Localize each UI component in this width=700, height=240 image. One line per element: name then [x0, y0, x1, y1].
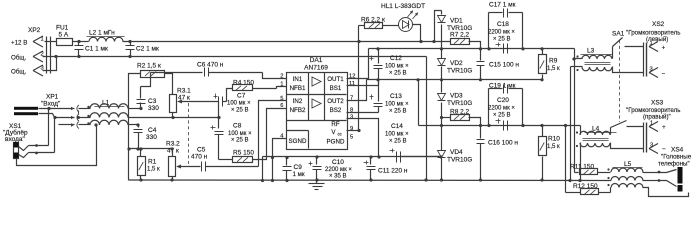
diode VD2 [441, 49, 443, 59]
IC amp triangle 2 [312, 99, 321, 108]
wire XS1 ring riser [54, 118, 56, 153]
svg-text:VD4: VD4 [450, 149, 463, 156]
resistor R10 [542, 126, 544, 137]
svg-text:R11 150: R11 150 [570, 164, 594, 171]
svg-text:C17 1 мк: C17 1 мк [489, 2, 516, 9]
svg-text:+: + [662, 124, 666, 131]
wire line2 left [39, 114, 55, 118]
svg-text:1: 1 [41, 37, 44, 43]
svg-text:TVR10G: TVR10G [447, 156, 472, 163]
svg-text:TVR10G: TVR10G [447, 100, 472, 107]
detach contact line3 [59, 124, 75, 126]
svg-text:C8: C8 [233, 123, 242, 130]
wire line1 left [39, 108, 75, 110]
switch SA1.1 [612, 47, 614, 59]
jack XS1 plug outline [14, 143, 19, 159]
wire C14 right [401, 156, 441, 158]
wire to pin2 [263, 73, 287, 79]
svg-text:HL1 L-383GDT: HL1 L-383GDT [381, 3, 425, 10]
shield tie [78, 111, 80, 115]
wire pin 7 riser [347, 80, 367, 101]
capacitor C20 [503, 121, 505, 131]
svg-text:100 мк ×: 100 мк × [385, 101, 409, 107]
resistor R12 [566, 192, 581, 194]
capacitor C14 [396, 152, 398, 163]
svg-text:(правый)": (правый)" [643, 114, 671, 121]
jack XS1 sleeve loop [17, 125, 97, 166]
capacitor C5 [201, 162, 203, 172]
svg-text:9: 9 [350, 126, 353, 132]
capacitor C6 [204, 68, 206, 77]
wire GND tie column [426, 57, 428, 181]
svg-text:XS4: XS4 [671, 147, 684, 154]
svg-text:L2 1 мГн: L2 1 мГн [89, 30, 115, 37]
svg-text:C14: C14 [391, 123, 403, 130]
svg-text:1 мк: 1 мк [293, 171, 305, 178]
svg-text:IN2: IN2 [293, 98, 303, 105]
capacitor C12 [376, 47, 379, 50]
svg-text:DA1: DA1 [310, 57, 323, 64]
svg-text:6: 6 [280, 103, 283, 109]
wire R2 left leg [129, 74, 141, 181]
svg-text:L5: L5 [624, 161, 632, 168]
svg-text:NFB1: NFB1 [290, 85, 306, 92]
wire R5 to pin6 [219, 159, 233, 161]
svg-text:100 мк ×: 100 мк × [385, 63, 409, 69]
svg-text:2200 мк ×: 2200 мк × [488, 29, 515, 35]
inductor L3 winding 1 [575, 58, 583, 60]
connector XP2 body bars [46, 37, 48, 74]
svg-text:1,5 к: 1,5 к [547, 144, 560, 150]
IC DA1 SGND box [287, 130, 309, 132]
svg-text:C13: C13 [390, 93, 402, 100]
inductor L5 winding 2 ground [611, 177, 643, 181]
inductor L4 winding 1 [580, 126, 582, 135]
wire lower left bus [129, 148, 173, 150]
svg-text:C15 100 н: C15 100 н [489, 62, 519, 69]
svg-text:RF: RF [331, 121, 339, 128]
wire XS1 tip riser [48, 109, 50, 146]
svg-text:C18: C18 [497, 21, 509, 28]
inductor L5 winding 3 [610, 188, 612, 193]
svg-text:2200 мк ×: 2200 мк × [488, 105, 515, 111]
inductor L4 winding 2 [580, 143, 610, 147]
connector XP2 pin 1 fork [33, 36, 43, 42]
resistor R6 [365, 23, 383, 29]
capacitor C11 [369, 155, 372, 158]
svg-text:L3: L3 [587, 48, 595, 55]
IC DA1 partitions [308, 73, 310, 121]
wire C5 to pin5 [259, 101, 287, 167]
svg-text:R5 150: R5 150 [233, 150, 254, 157]
svg-text:XP2: XP2 [28, 27, 41, 34]
svg-text:C7: C7 [237, 93, 246, 100]
resistor R11 [575, 172, 579, 174]
connector XP2 pin 3 fork [33, 65, 43, 71]
LED HL1 [383, 25, 399, 27]
inductor L3 core [585, 62, 611, 64]
ground symbol [316, 181, 318, 184]
svg-text:2200 мк ×: 2200 мк × [325, 167, 352, 173]
svg-text:NFB2: NFB2 [290, 107, 306, 114]
IC DA1 body [287, 73, 348, 150]
inductor L4 core [583, 138, 609, 140]
wire L5 w3 loop [643, 188, 689, 197]
capacitor C10 [315, 155, 318, 158]
wire line1 [129, 108, 141, 110]
jack XS1 spring 2 [19, 153, 29, 158]
capacitor C2 [130, 42, 132, 46]
diode VD1 loop [435, 11, 442, 42]
svg-text:SGND: SGND [289, 138, 307, 145]
wire FU1 to L2 [73, 41, 89, 43]
wire R12 feed riser [565, 126, 567, 193]
capacitor C13 [376, 78, 379, 81]
wire LED right leg [413, 25, 421, 42]
svg-text:100 мк ×: 100 мк × [227, 101, 251, 107]
wire ground bottom rail [129, 179, 611, 182]
wire line2 [129, 117, 219, 119]
wire OUT1 corner down [574, 49, 576, 173]
inductor L2 [89, 37, 123, 41]
resistor R5 [233, 157, 253, 163]
connector XP1 blade 2 [14, 112, 38, 115]
svg-text:330: 330 [148, 105, 159, 112]
IC amp triangle 1 [312, 77, 321, 86]
svg-text:+12 В: +12 В [11, 40, 27, 47]
svg-text:× 25 В: × 25 В [389, 71, 407, 77]
svg-text:VD2: VD2 [450, 60, 463, 67]
capacitor C3 [140, 87, 142, 99]
svg-text:× 25 В: × 25 В [389, 109, 407, 115]
svg-text:C10: C10 [332, 159, 344, 166]
capacitor C15 [480, 49, 482, 61]
wire R2 right leg [165, 74, 173, 95]
wire OUT2 bus [367, 79, 543, 81]
svg-text:FU1: FU1 [56, 25, 69, 32]
svg-text:R9: R9 [549, 58, 558, 65]
svg-text:1,5 к: 1,5 к [547, 66, 560, 72]
svg-text:1,5 к: 1,5 к [147, 166, 160, 172]
connector XS2 body [643, 43, 645, 77]
svg-text:C16 100 н: C16 100 н [488, 140, 518, 147]
svg-text:R2 1,5 к: R2 1,5 к [137, 63, 161, 70]
diode VD4 [441, 118, 443, 151]
wire OUT1 bus [369, 48, 575, 50]
wire pin 3 RF [347, 119, 379, 157]
inductor L5 winding 1 [611, 168, 643, 172]
wire L5 w1 to XS4 [643, 172, 659, 174]
svg-text:3: 3 [350, 115, 353, 121]
svg-text:R3.1: R3.1 [177, 88, 191, 95]
svg-text:−: − [662, 146, 666, 153]
svg-text:BS2: BS2 [330, 107, 342, 114]
wire OUT2 lower bus [419, 125, 581, 127]
wire C3 top link [141, 73, 151, 87]
svg-text:× 35 В: × 35 В [329, 174, 347, 180]
wire +12V rail [123, 41, 451, 43]
svg-text:PGND: PGND [327, 139, 345, 146]
svg-text:100 мк ×: 100 мк × [228, 131, 252, 137]
wire R7 down [469, 42, 481, 49]
svg-text:330: 330 [146, 134, 157, 141]
svg-text:AN7169: AN7169 [304, 65, 328, 72]
potentiometer R3.2 wiper [176, 165, 181, 169]
svg-text:C20: C20 [497, 97, 509, 104]
svg-text:C11 220 н: C11 220 н [378, 167, 408, 174]
svg-text:VD1: VD1 [450, 18, 463, 25]
svg-text:OUT2: OUT2 [327, 98, 344, 105]
resistor R2 [141, 71, 165, 78]
wire XS2 return [613, 67, 644, 73]
connector XS3 body [643, 123, 645, 153]
resistor R8 [442, 117, 451, 119]
svg-text:× 25 В: × 25 В [231, 138, 249, 144]
svg-text:XS2: XS2 [652, 21, 665, 28]
wire C6 line [151, 72, 203, 74]
svg-text:Общ.: Общ. [11, 55, 26, 62]
wire OUT2 feed [418, 80, 420, 126]
svg-text:R1: R1 [148, 159, 157, 166]
svg-text:× 25 В: × 25 В [231, 107, 249, 113]
capacitor C18 [503, 44, 505, 54]
capacitor C17 loop [488, 13, 490, 49]
svg-text:5 А: 5 А [59, 32, 69, 39]
wire R4 to pin1 [253, 88, 277, 90]
svg-text:C1 1 мк: C1 1 мк [85, 46, 108, 53]
svg-text:R4 150: R4 150 [233, 80, 254, 87]
potentiometer R3.1 wiper [177, 100, 182, 104]
resistor R9 [542, 49, 544, 55]
inductor L1 winding 2 [90, 113, 128, 118]
capacitor C8 [211, 127, 216, 129]
connector XP2 pin 2 fork [33, 51, 43, 57]
inductor L1 winding 1 [90, 104, 128, 109]
svg-text:1: 1 [280, 82, 283, 88]
svg-text:XP1: XP1 [46, 94, 59, 101]
dashed SA1 link [619, 40, 621, 122]
capacitor C7 [214, 96, 218, 98]
detach contact line2 [55, 117, 75, 119]
capacitor C9 [285, 156, 288, 159]
svg-text:IN1: IN1 [293, 76, 303, 83]
capacitor C19 loop [488, 89, 490, 126]
capacitor C4 [136, 123, 139, 126]
svg-text:Общ.: Общ. [11, 69, 26, 76]
svg-text:+: + [662, 45, 666, 52]
inductor L1 winding 3 [90, 120, 128, 125]
jack XS1 spring 1 [19, 146, 29, 151]
capacitor C17 [503, 9, 505, 18]
wire return ch1 vertical [570, 67, 572, 181]
switch SA1.2 [610, 128, 612, 135]
capacitor C19 [503, 85, 505, 94]
svg-text:5: 5 [350, 135, 353, 141]
svg-text:R3.2: R3.2 [166, 141, 180, 148]
connector XP1 blade 1 [14, 107, 38, 110]
svg-text:R7 2,2: R7 2,2 [450, 32, 470, 39]
resistor R1 [140, 149, 142, 157]
potentiometer R3.1 [170, 95, 177, 113]
svg-text:VD3: VD3 [450, 93, 463, 100]
diode VD3 [441, 80, 443, 93]
svg-text:cc: cc [338, 132, 342, 137]
svg-text:"Головные: "Головные [661, 154, 692, 161]
diode VD1 [441, 11, 443, 15]
wire pin 4 SGND [273, 139, 287, 181]
svg-text:XS3: XS3 [651, 100, 664, 107]
wire line3 [129, 124, 139, 126]
svg-text:телефоны": телефоны" [658, 161, 690, 168]
svg-text:−: − [662, 71, 666, 78]
svg-text:OUT1: OUT1 [327, 76, 344, 83]
svg-text:470 н: 470 н [191, 153, 208, 160]
LED arrows [408, 11, 413, 17]
svg-text:R10: R10 [548, 136, 560, 143]
svg-text:TVR10G: TVR10G [447, 67, 472, 74]
svg-text:C19 1 мк: C19 1 мк [489, 83, 516, 90]
resistor R7 [451, 39, 470, 45]
jack XS4 plug tip [678, 185, 683, 192]
svg-text:100 мк ×: 100 мк × [385, 131, 409, 137]
inductor L3 winding 2 [582, 67, 612, 71]
potentiometer R3.2 [172, 149, 174, 157]
wire pin3 to ground rail [43, 57, 57, 71]
jack XS1 plug tip [14, 142, 19, 148]
wire C7 node down [218, 102, 220, 129]
wire XS3 return [611, 143, 644, 149]
svg-text:BS1: BS1 [330, 85, 342, 92]
svg-text:× 25 В: × 25 В [493, 37, 511, 43]
svg-text:5: 5 [280, 96, 283, 102]
svg-text:2: 2 [280, 74, 283, 80]
wire C7 to R4 [227, 89, 233, 102]
capacitor C1 [78, 42, 80, 46]
wire pin 12 riser [347, 49, 369, 79]
dashed gang link [188, 103, 190, 164]
capacitor C16 [480, 126, 482, 139]
svg-text:C2 1 мк: C2 1 мк [136, 46, 159, 53]
svg-text:× 25 В: × 25 В [493, 113, 511, 119]
detach contact line1 [71, 107, 74, 111]
svg-text:"Вход": "Вход" [41, 101, 61, 108]
wire Vcc vertical [358, 26, 360, 131]
svg-text:SA1: SA1 [612, 31, 625, 38]
svg-text:C6 470 н: C6 470 н [197, 62, 224, 69]
wire SGND tie down [262, 157, 264, 181]
jack XS1 plug sleeve [14, 153, 19, 159]
svg-text:× 25 В: × 25 В [389, 139, 407, 145]
svg-text:C12: C12 [390, 55, 402, 62]
jack XS4 plug body [678, 167, 683, 184]
wire L5 w2 to XS4 [643, 180, 659, 182]
resistor R4 [233, 85, 253, 91]
wire ground rail [43, 56, 427, 58]
wire SGND rail [263, 156, 441, 158]
